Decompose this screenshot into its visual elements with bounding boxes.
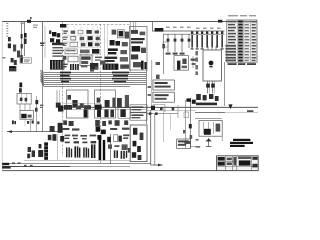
- cubicle relay row 3: [131, 54, 138, 59]
- stack: label text block (dark rows): [108, 48, 118, 54]
- feeder head cluster (dark): [186, 98, 195, 103]
- drop wire 4: [169, 114, 171, 130]
- LV main bus label row: [52, 43, 65, 46]
- title block: number cells right: [252, 157, 257, 168]
- link line below box2: [153, 105, 165, 113]
- mark on top border: [218, 20, 222, 23]
- transformer T2 primary winding: [50, 38, 54, 42]
- stack: side marks: [120, 50, 127, 54]
- mid feeder drop D with breaker: [188, 34, 191, 48]
- bus junction cluster b: [76, 106, 81, 110]
- tick on tertiary bus 1: [149, 112, 152, 115]
- lower marks on feeders: [183, 130, 192, 144]
- bus supply stub from border: [151, 22, 153, 31]
- stack: aux contact marks: [122, 42, 128, 46]
- cable tag dashes: [40, 105, 43, 108]
- bus upper faint line: [63, 102, 100, 104]
- bus tie dark tick cluster: [155, 28, 164, 32]
- neutral bus segment: [24, 160, 130, 162]
- panel section wire vertical: [151, 60, 153, 107]
- branch group 4 head components: [48, 134, 57, 141]
- title block: company cell (dark): [218, 157, 225, 166]
- ATS box: [20, 110, 33, 119]
- relay KT1: [81, 43, 86, 47]
- table column 4 entries: [252, 21, 257, 61]
- bus junction tick c: [172, 107, 175, 110]
- metering set PJ2: [14, 60, 17, 65]
- relay panel box 2 with text: [153, 92, 174, 102]
- sheet border left: [1, 22, 3, 171]
- ground bus line (darker left): [2, 166, 130, 168]
- feeder drop 5: [211, 35, 213, 48]
- grounding symbol: [205, 138, 211, 146]
- branch breaker QF: [162, 44, 164, 48]
- small box on feeder: [184, 112, 189, 118]
- marshalling box 3 outline: [118, 108, 130, 119]
- capacitor bank box: [174, 56, 188, 71]
- MCC outgoing arrow: [151, 164, 163, 167]
- branch group 1: [27, 147, 35, 158]
- control panel row 2: label text: [63, 37, 68, 40]
- junction label box on top border: [27, 20, 31, 23]
- disconnect switch QS1 on wire A: [21, 34, 23, 39]
- main bus line: [63, 106, 258, 108]
- CT set on wire A: [20, 55, 22, 60]
- dark chain component upper: [141, 61, 147, 70]
- relay contact row y120: [63, 120, 128, 126]
- test block SB1: [78, 30, 83, 34]
- branch load group G: [121, 151, 128, 159]
- mid feeder drop A with breaker: [166, 34, 171, 54]
- valve actuator marks on risers: [27, 120, 39, 124]
- mid feeder drop C with breaker: [180, 34, 185, 54]
- load symbols under cubicle: [196, 94, 218, 101]
- aux wire with marks right: [191, 56, 196, 68]
- control cabinet box (dark): [9, 66, 16, 71]
- tap wire dashes: [40, 42, 44, 46]
- incoming stub 1: [207, 46, 209, 50]
- branch load group D: [91, 144, 95, 158]
- bus junction tick b: [160, 107, 163, 110]
- dark block on panel wire: [107, 137, 111, 142]
- DC secondary bus dark left part: [195, 112, 225, 114]
- box2 edge component: [112, 98, 115, 108]
- DC bus label text: [196, 103, 217, 106]
- box2 terminal: [97, 98, 101, 103]
- fuse stack FU1: [19, 83, 22, 88]
- panel wire column A: [104, 25, 106, 70]
- vertical sheet-number text (left margin): [6, 23, 8, 37]
- control panel row 3: label text: [63, 43, 67, 46]
- battery panel box: [199, 120, 222, 136]
- feeder drop 1: [191, 35, 193, 48]
- branch group 3 (dark hatched bar): [44, 142, 48, 159]
- bus junction cluster a: [64, 105, 72, 110]
- branch load group A (hatch feet): [66, 147, 72, 157]
- cubicle text rows: [131, 38, 145, 43]
- feeder drop 3: [201, 35, 203, 48]
- tick on tertiary bus 2: [155, 112, 158, 115]
- outgoing cable arrow line: [7, 130, 63, 133]
- branch load group C: [83, 147, 89, 157]
- long drop wire 1: [150, 110, 152, 165]
- LV switchboard hatched block: [50, 60, 64, 70]
- box2 relay: [105, 100, 110, 108]
- protection cubicle outline: [129, 26, 147, 70]
- stack: kWh meter bank (very dark): [103, 64, 119, 70]
- pump feeder wire 2: [190, 98, 192, 148]
- side component right of box2: [117, 98, 122, 108]
- mid marks row: [108, 144, 128, 150]
- mid feeder drop B with breaker: [173, 34, 178, 54]
- secondary bus line y110: [147, 110, 197, 112]
- branch labels row (middle): [65, 135, 97, 140]
- box2 lower dark bar b: [104, 109, 108, 117]
- equipment table grid: [227, 20, 257, 62]
- metering set PJ1: [11, 58, 14, 62]
- feeder schedule text rows: [52, 47, 64, 57]
- HV bus upper line: [152, 30, 225, 32]
- bus junction dark block: [95, 105, 102, 110]
- incoming feeder wire A: [21, 22, 23, 60]
- meter PV2: [95, 30, 99, 33]
- meter PA2: [86, 30, 91, 34]
- box3 dark bar: [120, 109, 125, 117]
- feeder drop 2: [196, 35, 198, 48]
- indicator lamps HL: [12, 120, 16, 124]
- relay K2 cluster: [17, 51, 20, 58]
- feeder drop 7: [221, 35, 223, 48]
- breaker QF1 on wire A: [21, 44, 23, 49]
- PE bus line: [2, 163, 151, 165]
- inter-panel link marks: [148, 86, 151, 96]
- note text row under table: [228, 63, 256, 65]
- relay panel box 1 with text: [153, 80, 174, 90]
- parallel riser wire: [44, 26, 46, 58]
- branch wire: [36, 96, 38, 132]
- bus junction ticks: [191, 31, 223, 34]
- selector switch SA1: [71, 36, 76, 40]
- fuse stack FU2: [19, 88, 22, 92]
- terminal box X2: [68, 56, 78, 62]
- drop wire 5: [177, 105, 179, 118]
- tiny tag at left margin: [2, 57, 5, 59]
- cubicle outgoing pair A: [206, 81, 210, 93]
- junction text box 2: [130, 113, 147, 120]
- branch CT box: [163, 42, 168, 47]
- junction text box 1: [130, 105, 147, 112]
- stack: side marks 2: [120, 57, 128, 62]
- row 4: terminal block with label: [65, 49, 77, 54]
- stack: kWh meter row: [112, 30, 130, 39]
- relay KT2 (dark): [88, 42, 92, 46]
- bus parallel line: [63, 109, 146, 111]
- stack: side marks 3: [120, 64, 129, 68]
- bus tap dark segment: [60, 24, 66, 28]
- title block: top strip text: [238, 157, 251, 159]
- row 5: small CT: [63, 56, 67, 60]
- cubicle relay row 1b: [140, 32, 146, 36]
- stack: meter with dark core: [118, 30, 125, 38]
- dark terminal cluster center: [96, 126, 106, 139]
- motor symbol inside cubicle: [209, 61, 214, 68]
- stack: relay pair (dark): [110, 40, 120, 46]
- wiring text row y128: [62, 128, 129, 131]
- bus arrow mark: [228, 104, 232, 109]
- bottom row: label: [63, 64, 68, 68]
- long drop wire 2: [154, 114, 156, 165]
- harness left wire labels: [60, 72, 71, 83]
- CT label marks: [49, 30, 51, 34]
- contactor on feeder 2: [189, 124, 192, 128]
- cubicle outgoing pair B: [211, 81, 215, 93]
- branch label right: [123, 134, 129, 139]
- panel internal wiring verticals: [68, 26, 98, 64]
- voltage transformer TV1 on wire B: [24, 39, 27, 45]
- branch group 2: [38, 144, 43, 157]
- tick marks on PE bus: [12, 162, 33, 166]
- drop wire 3: [162, 107, 164, 142]
- lamp HL2: [95, 43, 100, 46]
- relay K1 cluster: [13, 45, 16, 52]
- wire stub: [24, 119, 26, 126]
- incoming stub 2: [211, 46, 213, 50]
- feeder drop 4: [206, 35, 208, 48]
- harness terminal wire vertical: [146, 68, 148, 124]
- box1 lower dark bar: [84, 109, 88, 117]
- enclosure dashed border center: [100, 24, 102, 164]
- box2 lower dark bar c: [110, 109, 114, 117]
- cubicle outline: [203, 50, 221, 81]
- wiring duct label: [80, 50, 90, 54]
- wire links: [95, 57, 102, 61]
- wire drop to arrow line: [30, 119, 32, 131]
- cable tag on bus: [247, 110, 253, 112]
- feeder name labels above bus: [166, 27, 221, 29]
- cubicle incoming wires: [134, 22, 136, 34]
- transformer T1 primary winding: [52, 32, 56, 36]
- left margin text block row1: [2, 163, 9, 165]
- ground label dashes: [196, 139, 201, 148]
- dark riser pair (very dark): [99, 136, 106, 160]
- branch box E: [114, 135, 122, 142]
- transformer T2 secondary winding: [56, 39, 60, 44]
- branch label row 2: [65, 141, 96, 143]
- meter group (dark): [90, 63, 98, 70]
- HV bus lower line: [163, 33, 225, 35]
- riser wire mid: [42, 46, 44, 132]
- enclosure dashed top edge: [63, 24, 131, 26]
- meter cabinet (boxed, dark interior): [80, 55, 92, 66]
- 小 terminal box on side wire: [56, 103, 61, 108]
- cable head component: [50, 126, 55, 132]
- panel side wire with taps: [57, 90, 60, 108]
- wire stub top: [21, 23, 25, 25]
- box1 contact: [80, 103, 84, 108]
- box1 relay: [72, 100, 77, 107]
- riser wire to transformer: [42, 22, 44, 46]
- cubicle bottom marks: [133, 62, 142, 67]
- panel internal wiring horizontals: [64, 35, 100, 54]
- sheet border top: [2, 21, 257, 23]
- incoming feeder wire B: [24, 22, 26, 56]
- branch load group B: [74, 146, 80, 157]
- terminal strip XT1: [70, 42, 78, 46]
- tertiary bus line y113: [147, 113, 179, 115]
- contactor KM1 on branch: [35, 100, 38, 104]
- table left-edge wire: [224, 62, 226, 106]
- DC secondary bus: [195, 112, 258, 114]
- cable head component 2: [58, 123, 63, 133]
- instrument branch symbol PV1: [8, 43, 11, 48]
- lamp HL1: [96, 37, 100, 40]
- title block: small text cells: [227, 157, 237, 165]
- MCC box (bottom middle-left): [130, 125, 147, 162]
- harness right wire labels: [112, 72, 129, 83]
- pump feeder wire 1: [185, 100, 187, 148]
- panel drop wire: [221, 136, 223, 141]
- station transformer branch wire: [163, 34, 165, 74]
- table column 2 dark entries: [238, 21, 243, 62]
- feeder drop 6: [216, 35, 218, 48]
- signal relay KS1: [88, 36, 93, 40]
- marshalling box 2 outline: [95, 90, 116, 118]
- wire from head down: [56, 134, 58, 160]
- label flag above border: [30, 17, 32, 19]
- energy meter PJ3 (dark): [92, 49, 99, 54]
- link dashes: [81, 65, 87, 67]
- panel wire column B: [106, 25, 108, 70]
- fuse group hatch: [70, 64, 79, 70]
- branch load group F: [114, 150, 118, 158]
- sheet border bottom: [2, 170, 258, 172]
- incoming stub 3: [215, 46, 217, 50]
- enclosure dashed border left: [62, 22, 64, 156]
- terminal box X1 with label: [20, 58, 31, 63]
- box2 lower dark bar a: [97, 109, 101, 117]
- cubicle relay row 2 (dark): [132, 46, 141, 52]
- third bus line: [195, 118, 222, 120]
- table column 3 entries: [244, 21, 249, 61]
- surge arrester F1 on wire B: [24, 33, 27, 38]
- contactor KM2 on branch: [35, 108, 38, 112]
- cubicle relay row 1: [131, 30, 138, 34]
- link wire from remote box: [190, 146, 200, 148]
- enclosure edge mark: [60, 136, 64, 142]
- bus junction block at x152: [151, 106, 155, 110]
- transformer T1 secondary winding: [57, 33, 60, 37]
- panel right border wire: [130, 22, 132, 72]
- bus junction cluster c: [84, 105, 91, 109]
- push button SB2: [80, 37, 85, 40]
- distribution box with cells: [17, 93, 31, 104]
- harness fan-out from riser: [41, 70, 147, 86]
- notes text block (3 dark rows): [230, 139, 253, 147]
- instrument branch symbol PA1: [8, 37, 11, 41]
- aux relay KA2: [71, 31, 76, 34]
- label text row: [33, 25, 38, 29]
- table column 1 entries: [225, 21, 236, 61]
- stack: lower text rows: [105, 57, 118, 62]
- control panel row 1: aux relay KA1: [63, 30, 67, 33]
- marshalling box 1 outline: [66, 90, 88, 118]
- wires below distribution box: [20, 104, 30, 110]
- box1 terminal TB: [67, 95, 71, 100]
- left margin text block row2: [2, 166, 10, 169]
- harness mid ticks: [90, 60, 106, 71]
- small tap box left of relay panels: [156, 62, 160, 79]
- cubicle aux marks: [141, 48, 146, 53]
- feeder drop feet: [191, 48, 224, 49]
- table caption dashes above border: [228, 15, 256, 16]
- remote box with label (bottom right of center): [177, 139, 191, 148]
- panel wire bottom segment: [110, 134, 112, 164]
- side label text column: [195, 51, 198, 75]
- branch mark H: [128, 148, 131, 153]
- dark joint cluster at enclosure edge: [58, 105, 63, 111]
- side component far right: [125, 95, 129, 108]
- title block: drawing title (dark): [239, 160, 251, 165]
